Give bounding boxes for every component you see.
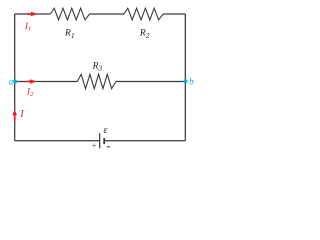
wire node a to R3 <box>15 81 78 83</box>
svg-text:+: + <box>91 140 97 150</box>
resistor R2 <box>124 8 163 20</box>
current arrow I2 (middle branch, rightward) <box>27 79 37 84</box>
wire R2 to top-right corner <box>163 13 185 15</box>
svg-text:R2: R2 <box>139 29 150 40</box>
svg-text:a: a <box>9 76 14 86</box>
svg-text:ε: ε <box>104 125 108 136</box>
resistor R3 <box>77 74 116 88</box>
svg-text:I: I <box>19 109 24 120</box>
node b <box>183 79 187 83</box>
current arrow I (left branch, upward) <box>12 109 17 121</box>
resistor R1 <box>50 8 89 20</box>
wire left vertical (corner to corner) <box>14 14 16 141</box>
wire right vertical (corner to corner) <box>184 14 186 141</box>
label - terminal <box>107 146 110 147</box>
wire R3 to node b <box>116 81 185 83</box>
wire battery to bottom-right <box>104 140 185 142</box>
node a <box>13 79 17 83</box>
battery emf source: negative plate (short, thick) <box>103 138 105 144</box>
svg-text:R1: R1 <box>64 29 75 40</box>
svg-text:R3: R3 <box>92 61 103 72</box>
wire R1 to R2 <box>90 13 124 15</box>
wire top-left to R1 <box>15 13 51 15</box>
wire bottom-left to battery <box>15 140 100 142</box>
current arrow I1 (top branch, rightward) <box>27 12 38 17</box>
svg-text:b: b <box>189 76 194 86</box>
battery emf source: positive plate (tall) <box>99 133 101 148</box>
